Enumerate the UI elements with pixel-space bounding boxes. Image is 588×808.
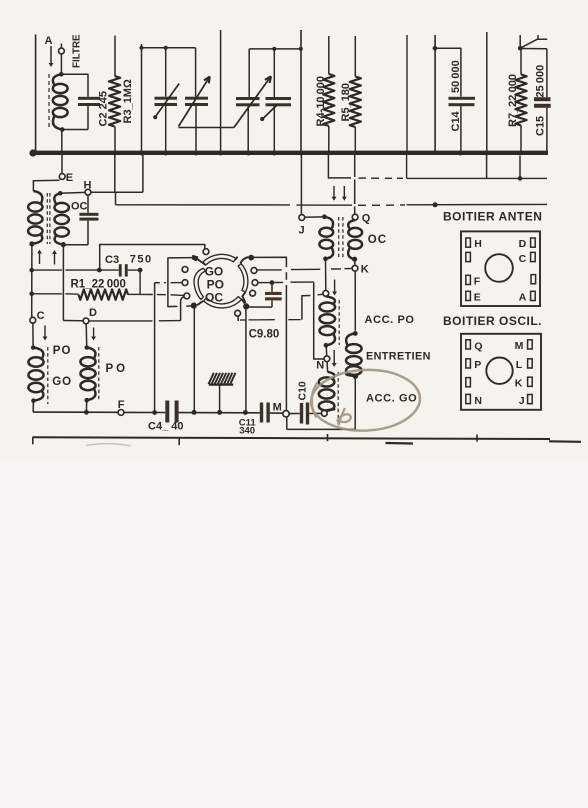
- capacitor C4: [165, 401, 178, 423]
- svg-text:25 000: 25 000: [535, 65, 547, 98]
- wire wiper dashed link: [240, 319, 301, 321]
- switch S1 top band: [203, 254, 236, 265]
- core dash accpo: [338, 300, 340, 345]
- wire switch bracket: [168, 258, 194, 307]
- connector circle oscillator: [486, 358, 512, 384]
- wire to K: [354, 259, 356, 265]
- node T1 sec top: [58, 191, 63, 196]
- terminal switch left1: [182, 267, 188, 273]
- wire T1 top to H: [60, 191, 85, 194]
- arrow coilC tune: [43, 326, 48, 341]
- wire group1 top: [142, 47, 196, 49]
- capacitor C3: [119, 264, 128, 276]
- svg-text:ACC. PO: ACC. PO: [365, 314, 415, 326]
- label C15: [535, 116, 547, 136]
- label C14: [450, 110, 462, 131]
- arrow T1 tune right: [52, 250, 57, 265]
- core dash accgo: [337, 372, 339, 425]
- wire wedgeBL down: [193, 308, 195, 410]
- svg-text:C: C: [37, 310, 45, 322]
- switch S1 right band top hook: [240, 257, 248, 263]
- wire plain vertical 487: [486, 32, 488, 151]
- wire D to contact3: [181, 297, 185, 321]
- connector circle antenna: [485, 254, 513, 282]
- label PO (C): [53, 345, 72, 357]
- wire mid vertical: [220, 30, 222, 151]
- node bus junction x196: [194, 151, 199, 156]
- label H: [84, 179, 92, 191]
- node C14 branch: [433, 46, 438, 51]
- svg-text:P: P: [474, 359, 481, 371]
- terminal switch right3: [250, 290, 256, 296]
- lug H: [466, 238, 482, 250]
- label C10: [297, 381, 309, 400]
- label J: [299, 225, 305, 237]
- svg-text:H: H: [84, 179, 92, 191]
- wire D down: [85, 324, 88, 345]
- wire switch top contact feed: [100, 245, 205, 271]
- wire node-R4 line: [328, 155, 547, 178]
- terminal switch right1: [251, 268, 257, 274]
- node group2 top-mid: [272, 47, 276, 51]
- label R5-180: [340, 83, 352, 122]
- label OC T2: [368, 234, 387, 246]
- lug F: [466, 275, 481, 287]
- wire T1 bottom: [63, 244, 88, 246]
- label C4 40: [148, 421, 183, 433]
- node entretien top: [353, 331, 358, 336]
- node bus junction x220.6: [218, 151, 223, 156]
- lug blank left osc: [466, 378, 471, 387]
- svg-text:Q: Q: [474, 340, 482, 352]
- node accpo bottom: [324, 343, 329, 348]
- node switch bottom-right wedge: [243, 303, 249, 309]
- node bottom 154: [152, 410, 157, 415]
- label 750: [130, 254, 153, 266]
- label ACC PO: [365, 314, 415, 326]
- svg-text:D: D: [519, 238, 527, 250]
- arrow coilD tune: [91, 328, 96, 341]
- node bus junction x486.6: [484, 151, 489, 156]
- svg-text:C15: C15: [535, 116, 547, 136]
- terminal switch wiper: [235, 310, 241, 321]
- lug blank right ant: [531, 275, 536, 284]
- wire C4 to C11: [179, 412, 260, 414]
- wire C14 branch vertical: [434, 35, 436, 151]
- terminal E: [59, 174, 65, 180]
- wire bus to E: [61, 155, 63, 174]
- node T2 pri bottom: [323, 256, 328, 261]
- svg-text:F: F: [474, 276, 481, 288]
- arrow T1 tune left: [37, 250, 42, 265]
- terminal K: [352, 265, 358, 271]
- svg-text:K: K: [361, 263, 369, 275]
- svg-text:N: N: [316, 360, 324, 372]
- wire step to N: [314, 282, 324, 359]
- label GO: [205, 264, 224, 278]
- label C3: [105, 254, 119, 266]
- label BOITIER OSCIL: [443, 314, 542, 328]
- label PO (D): [106, 363, 126, 375]
- inductor PO (D): [80, 348, 95, 401]
- node long-line C14 junction: [433, 202, 438, 207]
- terminal Q: [352, 214, 358, 220]
- node R7 foot junction: [518, 176, 523, 181]
- svg-text:BOITIER OSCIL.: BOITIER OSCIL.: [443, 314, 542, 328]
- capacitor C11: [260, 403, 270, 423]
- node C3-R1 right: [138, 268, 143, 273]
- terminal H: [85, 189, 91, 195]
- core dash line filter: [48, 74, 50, 128]
- wire bottom border: [33, 437, 551, 439]
- wire contact2 feed: [155, 282, 182, 284]
- label R1 22000: [71, 278, 126, 290]
- terminal D: [83, 318, 89, 324]
- node bus left end: [29, 149, 36, 156]
- node A label: [45, 35, 53, 47]
- terminal switch left3: [184, 293, 190, 299]
- capacitor C15: [520, 49, 551, 152]
- svg-text:C3: C3: [105, 254, 119, 266]
- inductor ACC GO: [319, 372, 335, 411]
- svg-text:E: E: [474, 292, 481, 304]
- svg-text:Q: Q: [362, 213, 371, 225]
- svg-text:N: N: [474, 395, 482, 407]
- node coilC top: [31, 345, 36, 350]
- arrow C6 rotor: [179, 77, 210, 127]
- node T1 sec bottom: [61, 242, 66, 247]
- wire N down: [326, 362, 329, 372]
- node bus junction x141.5: [139, 151, 144, 156]
- node group1 top-left: [139, 46, 143, 50]
- wire R1 right: [128, 293, 140, 295]
- switch S1 bottom band: [204, 297, 242, 308]
- svg-text:D: D: [89, 307, 97, 319]
- node rail C3: [29, 268, 34, 273]
- arrow accpo: [332, 280, 337, 296]
- transformer T1 secondary: [54, 193, 69, 244]
- ground chassis: [209, 373, 236, 411]
- wire T1sec rail: [62, 245, 64, 321]
- core T1: [47, 193, 50, 244]
- wire E to T1: [33, 180, 59, 191]
- wire filter to bus: [61, 130, 63, 152]
- label GO (C): [52, 376, 72, 388]
- terminal A: [59, 44, 65, 75]
- terminal M: [283, 411, 289, 417]
- label N: [316, 360, 324, 372]
- label 50000: [450, 60, 462, 93]
- switch S1 bottom band right kink: [242, 299, 245, 303]
- antenna input arrow: [49, 46, 54, 67]
- lug D: [519, 238, 536, 250]
- label PO: [207, 277, 224, 291]
- label R3-1M: [122, 79, 134, 123]
- label C: [37, 310, 45, 322]
- lug J: [519, 395, 532, 407]
- svg-text:50 000: 50 000: [450, 60, 462, 93]
- svg-text:K: K: [515, 378, 523, 390]
- wire C9 bottom: [249, 306, 272, 308]
- capacitor C10: [300, 403, 309, 425]
- inductor ACC PO: [320, 296, 336, 345]
- wire R7 foot: [519, 156, 521, 179]
- wire filter box: [61, 74, 88, 129]
- node switch top-right wedge: [248, 255, 254, 261]
- lug P: [466, 359, 481, 371]
- wire D line: [63, 319, 180, 322]
- svg-text:C: C: [519, 253, 527, 265]
- wire C down: [32, 323, 34, 345]
- svg-text:BOITIER ANTEN: BOITIER ANTEN: [443, 210, 542, 224]
- node bus junction x274.3: [272, 151, 277, 156]
- node group1 top-mid: [164, 46, 168, 50]
- pen ellipse ACC GO: [310, 368, 422, 433]
- node bus junction x248.4: [246, 151, 251, 156]
- terminal J: [299, 215, 305, 221]
- node rail R1: [29, 292, 34, 297]
- terminal accpo top: [323, 291, 329, 297]
- label F: [118, 399, 125, 411]
- node bottom 245: [243, 410, 248, 415]
- wire left rail: [31, 244, 33, 317]
- wire switch contact3 line: [140, 294, 184, 295]
- wire coilD to bottom: [85, 400, 87, 412]
- capacitor T1 OC: [79, 195, 98, 245]
- node coilD top: [85, 345, 90, 350]
- svg-text:P O: P O: [106, 363, 126, 375]
- wire acc-go right rail: [287, 376, 356, 429]
- transformer T1 primary: [28, 191, 42, 244]
- core dash coilD: [98, 347, 100, 400]
- svg-text:A: A: [519, 292, 527, 304]
- label C9.80: [249, 329, 280, 341]
- label R4-10000: [315, 76, 327, 127]
- arrow T2 tune left: [332, 186, 337, 201]
- wire R2contact: [258, 281, 283, 283]
- label Q: [362, 213, 371, 225]
- wire rail to M: [252, 257, 287, 411]
- switch S1 right band bottom hook: [242, 292, 245, 302]
- wire J to T2: [305, 216, 323, 218]
- lug C: [519, 252, 536, 264]
- svg-text:M: M: [515, 340, 524, 352]
- wire drop to long line: [115, 192, 117, 205]
- terminal switch top contact: [203, 249, 209, 255]
- svg-text:OC: OC: [205, 290, 223, 304]
- wire step up: [302, 294, 323, 319]
- node bottom 219: [217, 410, 222, 415]
- terminal F: [118, 410, 124, 416]
- lug L: [516, 359, 532, 371]
- dash border a: [386, 442, 414, 445]
- wire bus drop 143: [142, 155, 144, 192]
- capacitor C9: [265, 283, 282, 308]
- node filter coil bottom: [60, 127, 65, 132]
- wire main bus: [33, 151, 548, 155]
- core dash coilC: [47, 347, 49, 404]
- switch S1 right band: [238, 264, 248, 293]
- terminal switch left2: [182, 280, 188, 286]
- label 25000: [535, 65, 547, 98]
- svg-text:ACC. GO: ACC. GO: [366, 393, 417, 405]
- wire C3 right: [128, 269, 140, 271]
- resistor R1: [79, 289, 129, 299]
- tick border 4: [476, 435, 478, 442]
- node C3 junction: [97, 268, 102, 273]
- svg-text:J: J: [299, 225, 305, 237]
- switch S1 bottom band left kink: [197, 301, 203, 305]
- dash border b: [549, 440, 581, 443]
- node T2 pri top: [322, 214, 327, 219]
- resistor R7: [515, 35, 547, 151]
- terminal N: [324, 356, 330, 362]
- tick border 3: [327, 434, 329, 441]
- resistor R5: [350, 36, 361, 151]
- svg-text:PO: PO: [53, 345, 72, 357]
- node coilD bottom: [84, 398, 89, 403]
- arrow C8 rotor: [260, 104, 278, 121]
- lug Q: [466, 340, 483, 353]
- svg-text:R3_1MΩ: R3_1MΩ: [122, 79, 134, 123]
- label OC T1: [71, 200, 88, 212]
- lug blank left ant: [466, 252, 471, 261]
- wire C11 to M: [270, 412, 283, 414]
- arrow C5 rotor: [153, 84, 179, 120]
- svg-text:PO: PO: [207, 277, 224, 291]
- node coilD bottom wire: [84, 410, 89, 415]
- svg-text:ENTRETIEN: ENTRETIEN: [366, 351, 431, 363]
- wire coilC to bottom: [32, 401, 34, 412]
- svg-text:E: E: [66, 172, 73, 184]
- svg-text:GO: GO: [205, 264, 224, 278]
- terminal C: [30, 317, 36, 323]
- connector box oscillator: [461, 334, 541, 410]
- label FILTRE: [72, 34, 83, 68]
- wire contact2 rail: [154, 283, 156, 411]
- wire C3R1 tie: [139, 270, 141, 294]
- svg-text:M: M: [273, 402, 282, 414]
- svg-text:R4-10 000: R4-10 000: [315, 76, 327, 127]
- node T1 pri bottom: [29, 241, 34, 246]
- svg-text:F: F: [118, 399, 125, 411]
- tick border 2: [178, 438, 180, 445]
- wire T2 pri bottom down: [325, 259, 327, 291]
- svg-text:FILTRE: FILTRE: [72, 34, 83, 68]
- arrow T2 tune right: [342, 186, 347, 201]
- node C9 junction: [270, 280, 275, 285]
- lug A: [519, 291, 535, 303]
- wire bus drop 114: [114, 155, 116, 192]
- wire R1contact to K: [257, 269, 352, 270]
- node bus junction x115: [113, 151, 118, 156]
- node T2 sec bottom: [352, 257, 357, 262]
- wire C3 lead: [99, 269, 119, 271]
- label OC: [205, 290, 223, 304]
- resistor R4: [323, 36, 334, 151]
- node switch top-left wedge: [192, 255, 205, 265]
- lug M: [515, 340, 533, 352]
- lug N: [466, 394, 482, 407]
- capacitor C7 variable: [236, 49, 260, 152]
- wire F to C4: [124, 411, 165, 413]
- label C2 245: [98, 91, 110, 126]
- node group2 top-right: [299, 47, 303, 51]
- label M: [273, 402, 282, 414]
- svg-text:C10: C10: [297, 381, 309, 400]
- wire rotor shaft: [179, 127, 234, 129]
- wire C3 left: [32, 269, 100, 271]
- svg-text:340: 340: [239, 426, 255, 437]
- svg-text:J: J: [519, 395, 525, 407]
- label R7-22000: [507, 74, 519, 127]
- svg-text:R5_180: R5_180: [340, 83, 352, 122]
- node bus junction x460.5: [458, 151, 463, 156]
- transformer T2 primary: [319, 217, 333, 259]
- wire J rail lower: [300, 155, 302, 215]
- wire accpo to N: [325, 345, 328, 356]
- svg-text:GO: GO: [52, 376, 72, 388]
- node coilC bottom: [31, 398, 36, 403]
- svg-text:C2 245: C2 245: [98, 91, 110, 126]
- label D: [89, 307, 97, 319]
- node switch bottom-left wedge: [191, 303, 197, 309]
- wire H right: [91, 191, 143, 193]
- lug K: [515, 377, 532, 389]
- svg-text:R7_22 000: R7_22 000: [507, 74, 519, 127]
- wire wedgeBR down: [245, 308, 247, 411]
- node bottom 194: [192, 410, 197, 415]
- wire K down: [354, 271, 356, 330]
- resistor R3: [109, 36, 120, 151]
- svg-text:H: H: [474, 238, 482, 250]
- label ACC GO: [366, 393, 417, 405]
- label ENTRETIEN: [366, 351, 431, 363]
- wire bus drop 406: [406, 155, 408, 178]
- label C11: [239, 418, 257, 429]
- label 340: [239, 426, 255, 437]
- svg-text:A: A: [45, 35, 53, 47]
- svg-text:L: L: [516, 359, 523, 371]
- tick border 1: [32, 437, 34, 444]
- wire R2 continue: [291, 281, 314, 283]
- node entretien bottom: [353, 374, 358, 379]
- lug E: [466, 291, 481, 303]
- label K: [361, 263, 369, 275]
- connector box antenna: [461, 231, 540, 306]
- wire group2 top: [249, 48, 301, 50]
- inductor PO-GO (C): [28, 348, 43, 401]
- wire C10 right: [309, 412, 321, 414]
- inductor filter coil: [53, 74, 68, 129]
- inductor ENTRETIEN: [346, 333, 362, 376]
- wire antenna lead-in vertical: [35, 35, 37, 152]
- svg-text:OC: OC: [368, 234, 387, 246]
- label E: [66, 172, 73, 184]
- label BOITIER ANTEN: [443, 210, 542, 224]
- svg-text:OC: OC: [71, 200, 88, 212]
- svg-text:750: 750: [130, 254, 153, 266]
- node bus junction x165.7: [163, 151, 168, 156]
- capacitor C6 variable: [185, 48, 208, 151]
- wire tuning group1 left: [141, 44, 143, 151]
- wire R1 left: [32, 293, 79, 295]
- wire bus to Q: [354, 155, 356, 214]
- transformer T2 secondary: [348, 220, 362, 259]
- wire bottom left: [33, 411, 118, 413]
- wire bus drop 487b: [486, 155, 488, 178]
- capacitor C5 variable: [155, 48, 178, 151]
